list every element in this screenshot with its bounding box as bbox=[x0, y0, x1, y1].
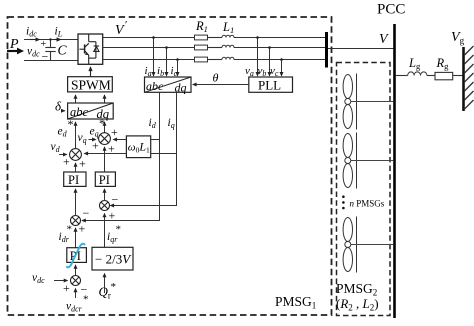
resistor Rg bbox=[435, 72, 453, 79]
cyan saturation slash over PI bbox=[67, 244, 85, 268]
arrow delta into transform bbox=[62, 110, 65, 112]
arrow vdc junction to PI dc bbox=[75, 265, 77, 276]
PI box dc voltage bbox=[67, 248, 87, 263]
junction dot v_a tap bbox=[256, 36, 259, 39]
svg-text:−: − bbox=[83, 206, 90, 220]
omega0 L1 cross-coupling box bbox=[126, 136, 150, 158]
wire phase c bbox=[103, 59, 195, 61]
IGBT Q inside converter bbox=[80, 34, 96, 64]
inductor Lg bbox=[408, 72, 427, 76]
PLL box bbox=[249, 77, 293, 93]
svg-text:*: * bbox=[68, 117, 74, 131]
junction dot v_b tap bbox=[268, 46, 271, 49]
arrow SPWM to converter bbox=[90, 67, 92, 77]
svg-text:abc: abc bbox=[146, 79, 164, 93]
svg-text:′: ′ bbox=[125, 19, 127, 31]
summing junction q current error bbox=[100, 201, 110, 211]
wire omega0L1 to d junction bbox=[84, 153, 126, 155]
arrow dq-abc to SPWM left bbox=[75, 95, 77, 103]
grid wall hatching bbox=[465, 46, 474, 109]
SPWM box bbox=[68, 77, 113, 93]
arrow q error to PI bbox=[104, 189, 106, 201]
current tap i_c bbox=[177, 60, 179, 76]
arrow v_dcr into junction bbox=[75, 289, 77, 299]
svg-text:+: + bbox=[79, 157, 86, 171]
transform abc-dq box U2 bbox=[145, 77, 192, 95]
arrow dq-abc to SPWM right bbox=[104, 95, 106, 103]
junction dot i_b tap bbox=[165, 46, 168, 49]
summing junction d current error bbox=[71, 216, 81, 226]
transform dq-abc box U1 bbox=[68, 103, 114, 121]
junction dot i_a tap bbox=[152, 36, 155, 39]
arrow i_L on wire bbox=[54, 39, 61, 41]
svg-text:−: − bbox=[112, 193, 119, 207]
diode in converter bbox=[94, 46, 100, 52]
wire PCC to Lg bbox=[396, 75, 408, 77]
wire i_d tap to omega0L1 bbox=[151, 139, 160, 141]
voltage tap v_a bbox=[257, 38, 259, 76]
inductor L1 phase b bbox=[222, 45, 234, 47]
converter box bbox=[78, 34, 103, 64]
svg-text:*: * bbox=[111, 281, 117, 293]
svg-text:n PMSGs: n PMSGs bbox=[350, 199, 385, 209]
wire phase a bbox=[103, 37, 195, 39]
svg-text:δ: δ bbox=[55, 99, 62, 114]
resistor R1 phase c bbox=[195, 57, 208, 62]
svg-text:+: + bbox=[63, 281, 70, 295]
arrow i_dc on wire bbox=[30, 39, 40, 41]
summing junction q-axis voltage bbox=[99, 133, 111, 145]
svg-text:SPWM: SPWM bbox=[71, 78, 111, 93]
resistor R1 phase a bbox=[195, 35, 208, 40]
PMSG2 dashed boundary box bbox=[337, 63, 391, 316]
wire phase b bbox=[103, 47, 195, 49]
wire DC bottom bbox=[24, 60, 78, 62]
svg-text:+: + bbox=[92, 139, 99, 153]
PMSG1 dashed boundary box bbox=[8, 17, 332, 315]
PMSG1 output bus bar bbox=[325, 32, 328, 68]
capacitor C bbox=[45, 40, 55, 61]
arrow PI q output to q junction bbox=[104, 147, 106, 172]
junction dot v_c tap bbox=[280, 58, 283, 61]
junction dot i_c tap bbox=[176, 58, 179, 61]
junction dot capacitor node bbox=[49, 38, 51, 40]
wind turbine 3 bbox=[343, 217, 393, 273]
vertical dots n PMSGs bbox=[342, 195, 345, 209]
wire Lg to Rg bbox=[427, 75, 435, 77]
wire i_d from transform bbox=[82, 92, 160, 220]
wind turbine 2 bbox=[343, 133, 393, 189]
svg-text:−: − bbox=[42, 50, 49, 64]
wire e_d* junction to transform bbox=[75, 122, 77, 149]
svg-text:+: + bbox=[79, 222, 86, 236]
wire omega0L1 to q junction bbox=[113, 139, 126, 141]
svg-text:C: C bbox=[58, 43, 68, 58]
summing junction d-axis voltage bbox=[70, 149, 82, 161]
arrow v_dc into junction bbox=[54, 280, 68, 282]
wire DC top bbox=[24, 39, 78, 41]
svg-text:+: + bbox=[63, 155, 70, 169]
wire i_q tap to omega0L1 bbox=[151, 153, 177, 155]
wire bus to PCC bbox=[328, 48, 393, 50]
voltage tap v_b bbox=[269, 48, 271, 76]
PCC bus V bbox=[393, 24, 396, 318]
wire Rg to grid bbox=[453, 75, 463, 77]
svg-text:+: + bbox=[41, 39, 47, 50]
inductor L1 phase c bbox=[222, 57, 234, 59]
grid wall bbox=[462, 47, 465, 111]
svg-text:*: * bbox=[99, 116, 105, 130]
svg-text:V: V bbox=[115, 23, 125, 38]
current tap i_a bbox=[153, 38, 155, 76]
PI box d-axis bbox=[64, 172, 86, 187]
arrow PI d output to d junction bbox=[75, 163, 77, 172]
svg-text:− 2/3V: − 2/3V bbox=[95, 252, 132, 267]
svg-text:PMSG1: PMSG1 bbox=[275, 294, 316, 311]
svg-text:PLL: PLL bbox=[258, 78, 281, 93]
wind turbine 1 bbox=[343, 74, 393, 130]
svg-text:*: * bbox=[67, 224, 73, 236]
wire 2/3V to q error junction bbox=[104, 214, 106, 248]
svg-text:+: + bbox=[109, 209, 116, 223]
resistor R1 phase b bbox=[195, 45, 208, 50]
svg-text:PCC: PCC bbox=[377, 2, 405, 18]
voltage tap v_c bbox=[281, 60, 283, 76]
reactive power -2/3V box bbox=[92, 247, 133, 270]
svg-text:*: * bbox=[83, 294, 89, 306]
arrow Q_r into 2/3V box bbox=[104, 274, 106, 294]
svg-text:PI: PI bbox=[99, 173, 110, 187]
wire e_q* junction to transform bbox=[104, 122, 106, 133]
arrow v_d into junction bbox=[59, 154, 67, 156]
wire i_q from transform bbox=[110, 92, 176, 205]
current tap i_b bbox=[166, 48, 168, 76]
wire PI dc to d error junction bbox=[75, 228, 77, 248]
svg-text:V: V bbox=[379, 32, 389, 47]
svg-text:θ: θ bbox=[213, 71, 219, 85]
inductor L1 phase a bbox=[222, 35, 234, 37]
wire theta PLL to abc-dq bbox=[193, 84, 249, 86]
PI box q-axis bbox=[95, 172, 115, 187]
arrow v_q into junction bbox=[89, 139, 96, 141]
svg-text:+: + bbox=[111, 125, 118, 139]
arrow d error to PI bbox=[75, 189, 77, 216]
svg-text:*: * bbox=[116, 224, 122, 236]
svg-text:PI: PI bbox=[68, 173, 79, 187]
summing junction dc voltage bbox=[71, 276, 81, 286]
arrow P input bbox=[7, 50, 18, 52]
